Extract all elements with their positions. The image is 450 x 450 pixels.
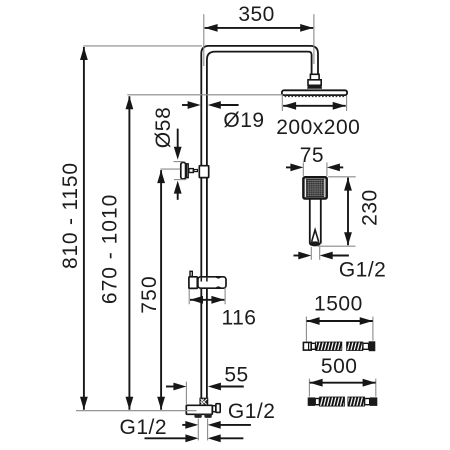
extension line hand shower G1/2 right — [319, 247, 321, 260]
overhead shower plate 200x200 — [282, 90, 347, 95]
dimension 670-1010 line — [128, 96, 130, 410]
wall bracket pin — [194, 170, 198, 172]
long hose 1500 right fitting — [369, 341, 376, 351]
hand shower spray face — [306, 179, 324, 196]
extension line bottom G1/2 right — [207, 419, 209, 441]
dimension 75 arrows — [286, 166, 292, 168]
svg-text:230: 230 — [358, 189, 381, 226]
short hose 500 corrugated section A — [320, 397, 345, 406]
extension line hand shower top for 230 — [328, 176, 356, 178]
svg-text:Ø58: Ø58 — [152, 107, 175, 149]
extension line head underside for 670-1010 — [127, 94, 283, 96]
wire riser-and-arm inner contour — [207, 52, 312, 399]
extension line 500 right — [375, 379, 377, 397]
wall bracket flange — [181, 162, 186, 179]
extension line 350 left — [203, 14, 205, 66]
svg-text:75: 75 — [300, 144, 324, 167]
extension line 75 left — [302, 162, 304, 176]
svg-text:116: 116 — [222, 307, 257, 330]
long hose 1500 corrugated section B — [347, 342, 363, 351]
dimension dia-19 arrows — [182, 104, 189, 106]
node valve centreline reference — [76, 410, 197, 412]
svg-text:500: 500 — [321, 355, 358, 378]
dimension 500 line — [310, 382, 376, 384]
long hose 1500 left fitting — [303, 342, 311, 350]
extension line flange bottom for dia-58 — [174, 179, 186, 181]
long hose 1500 left fitting divider — [308, 343, 310, 350]
extension line 1500 left — [305, 317, 307, 342]
shower-head collar — [310, 74, 319, 80]
long hose 1500 right collar — [363, 343, 369, 349]
diverter valve body — [186, 405, 212, 414]
long hose 1500 left collar — [311, 343, 315, 349]
dimension dia-58 upper arrow — [177, 129, 179, 149]
valve side outlet cap — [216, 404, 220, 413]
extension line 116 left — [188, 289, 190, 304]
extension line 75 right — [326, 162, 328, 176]
extension line 500 left — [308, 379, 310, 397]
svg-text:Ø19: Ø19 — [223, 109, 264, 132]
valve side outlet — [213, 406, 216, 412]
extension line hand shower G1/2 left — [310, 247, 312, 260]
svg-text:G1/2: G1/2 — [228, 400, 276, 423]
slider knob — [190, 271, 192, 276]
svg-text:G1/2: G1/2 — [339, 259, 387, 282]
valve bottom-left port nut — [194, 414, 201, 418]
short hose 500 corrugated section B — [348, 397, 365, 406]
extension line 55 wall side — [185, 382, 187, 405]
dimension valve inlet G1/2 arrows — [145, 437, 187, 439]
dimension 350 line — [205, 27, 314, 29]
hand shower inlet cap — [309, 241, 320, 246]
extension line 200x200 left — [281, 96, 283, 112]
dimension 55 arrows — [166, 386, 175, 388]
extension line top of arm for 810-1150 — [83, 45, 202, 47]
short hose 500 left collar — [315, 399, 319, 405]
long hose 1500 corrugated section A — [316, 342, 342, 351]
svg-text:670 - 1010: 670 - 1010 — [98, 194, 121, 304]
svg-text:55: 55 — [224, 363, 248, 386]
hand shower handle — [309, 199, 311, 244]
dimension hand shower G1/2 arrows — [294, 255, 300, 257]
svg-text:200x200: 200x200 — [276, 116, 360, 139]
riser bottom nut — [200, 398, 207, 405]
dimension 1500 line — [307, 320, 373, 322]
extension line bottom G1/2 left — [197, 419, 199, 441]
hand shower nozzle cone — [312, 230, 319, 242]
slider left block — [189, 277, 197, 289]
riser union block — [199, 166, 208, 178]
slider holder grip notch — [216, 277, 220, 288]
svg-text:1500: 1500 — [314, 293, 363, 316]
wire riser-and-arm outer contour — [201, 46, 318, 399]
wall bracket plate — [187, 164, 189, 178]
dimension 230 line — [347, 178, 349, 246]
svg-text:810 - 1150: 810 - 1150 — [59, 162, 82, 269]
svg-text:350: 350 — [238, 3, 275, 26]
dimension dia-58 lower arrow — [177, 192, 179, 200]
shower-head connector nut — [308, 80, 321, 86]
dimension 116 line — [190, 299, 224, 301]
slider holder body — [198, 277, 226, 288]
extension line 116 right — [224, 288, 226, 305]
hand shower head — [303, 177, 326, 198]
wire riser stub through slider — [200, 278, 202, 282]
overhead shower spray nozzles — [285, 95, 345, 97]
short hose 500 right fitting — [370, 397, 378, 406]
extension line hand shower bottom for 230 — [317, 245, 355, 247]
extension line 1500 right — [372, 317, 374, 341]
extension line bracket centre for 750 — [160, 168, 180, 170]
valve bottom-right port nut — [204, 414, 211, 418]
dimension valve outlet G1/2 arrows — [182, 424, 186, 426]
dimension 750 line — [160, 170, 162, 410]
dimension 810-1150 line — [83, 47, 85, 410]
wall bracket arm — [189, 169, 193, 173]
extension line flange top for dia-58 — [174, 161, 185, 163]
extension line 200x200 right — [346, 96, 348, 112]
svg-text:750: 750 — [138, 275, 161, 314]
extension line 350 right — [313, 14, 315, 64]
short hose 500 right collar — [365, 399, 370, 405]
dimension 200x200 line — [283, 105, 346, 107]
short hose 500 left fitting — [308, 397, 315, 406]
svg-text:G1/2: G1/2 — [120, 416, 168, 439]
